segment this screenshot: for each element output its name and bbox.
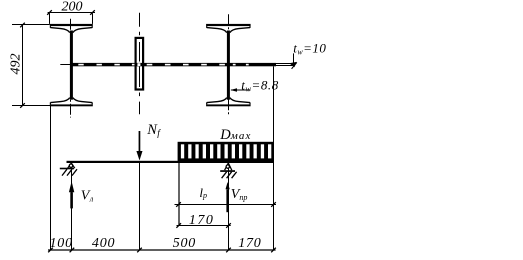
- bar thin continuation (wall lines): [276, 64, 293, 66]
- reaction arrow V right: [226, 182, 230, 212]
- lower: extension verticals: [51, 66, 274, 250]
- svg-text:500: 500: [173, 236, 196, 251]
- reaction arrow V left: [69, 181, 74, 208]
- svg-text:170: 170: [189, 213, 215, 228]
- leader t_w=10: [289, 40, 326, 68]
- svg-text:492: 492: [8, 54, 23, 75]
- lower beam line: [67, 161, 274, 163]
- I-beam left: [50, 24, 93, 106]
- dimension 492: [12, 23, 51, 108]
- distributed load D_max: [178, 142, 274, 161]
- svg-text:200: 200: [62, 0, 83, 15]
- plate (stiffener): [135, 37, 145, 91]
- horizontal bar (axis element): [71, 63, 276, 66]
- leader t_w=8.8: [230, 78, 279, 94]
- dim row 170 upper: [176, 223, 230, 228]
- svg-text:170: 170: [238, 236, 261, 251]
- dim row l_p: [175, 202, 277, 207]
- centerline plate vertical: [139, 13, 141, 114]
- svg-text:Dмах: Dмах: [219, 127, 251, 143]
- svg-text:100: 100: [49, 236, 72, 251]
- arrow N_f: [136, 131, 142, 161]
- white dashes on bar: [78, 63, 248, 66]
- centerline right beam: [228, 14, 230, 115]
- horizontal axis tail left of web: [60, 64, 70, 66]
- centerline left beam: [70, 19, 72, 118]
- dimension 200: [47, 10, 95, 24]
- I-beam right: [206, 24, 251, 106]
- svg-text:400: 400: [92, 236, 115, 251]
- support left: [60, 163, 77, 176]
- support right: [220, 163, 236, 178]
- dim chain bottom: [48, 248, 276, 253]
